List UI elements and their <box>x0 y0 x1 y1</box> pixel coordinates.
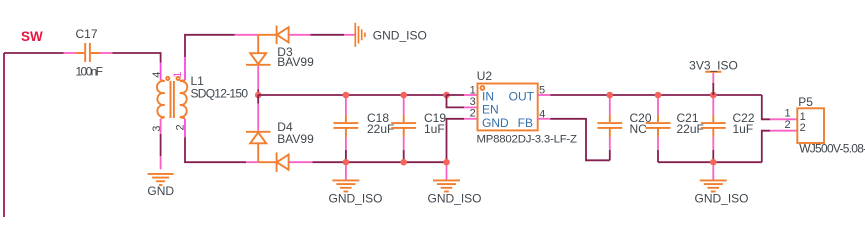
ground GND pin stub <box>160 156 162 169</box>
diode D4 vertical half <box>246 132 271 162</box>
svg-text:1: 1 <box>172 72 184 78</box>
wire pin2 to bottom rail <box>185 137 246 162</box>
wire D3 anode down pink <box>257 66 259 90</box>
svg-text:1: 1 <box>784 107 790 119</box>
svg-text:3: 3 <box>470 96 476 108</box>
P5 pin 1 stub <box>770 118 797 120</box>
wire pin1 riser to top rail <box>185 35 235 57</box>
svg-text:P5: P5 <box>798 95 813 109</box>
svg-text:22uF: 22uF <box>677 122 704 136</box>
diode D3 horizontal half <box>258 26 288 45</box>
svg-text:GND: GND <box>147 184 174 198</box>
transformer L1 pin 2 stub <box>184 119 186 138</box>
capacitor C17 <box>76 43 100 62</box>
connector P5 box <box>797 108 824 143</box>
svg-text:MP8802DJ-3.3-LF-Z: MP8802DJ-3.3-LF-Z <box>477 133 578 145</box>
svg-text:GND_ISO: GND_ISO <box>373 29 427 43</box>
L1 polarity dot primary <box>166 77 169 80</box>
svg-text:100nF: 100nF <box>76 65 104 79</box>
U2 pin 3 stub <box>464 106 478 108</box>
wire mid rail <box>258 94 446 96</box>
wire D3 cathode pink segment <box>289 34 311 36</box>
junction C20 top <box>607 92 614 99</box>
U2 pin1 indicator circle <box>480 86 484 90</box>
svg-text:GND_ISO: GND_ISO <box>695 191 749 205</box>
wire EN feed <box>447 95 465 107</box>
diode D3 vertical half <box>246 35 271 65</box>
junction U2 GND at bottom rail <box>443 159 450 166</box>
transformer L1 pin 1 stub <box>184 57 186 80</box>
op-amp regulator U2 box <box>478 84 538 131</box>
svg-text:3V3_ISO: 3V3_ISO <box>689 58 738 72</box>
wire bottom rail pink segment at D4 <box>246 161 258 163</box>
U2 pin 2 stub <box>464 118 478 120</box>
svg-text:GND: GND <box>482 116 509 130</box>
svg-text:22uF: 22uF <box>367 122 394 136</box>
wire bottom rail <box>313 161 447 163</box>
junction U2 input top <box>443 92 450 99</box>
svg-text:U2: U2 <box>477 69 493 83</box>
U2 pin 4 stub <box>538 118 551 120</box>
transformer L1 pin 4 stub <box>160 63 162 80</box>
wire SW net pink segment left of C17 <box>64 52 77 54</box>
svg-text:SDQ12-150: SDQ12-150 <box>191 86 249 100</box>
svg-text:1uF: 1uF <box>424 122 445 136</box>
wire SW net pink segment right of C17 <box>100 52 113 54</box>
capacitor C20 <box>597 97 622 161</box>
ground GND_ISO under U2 <box>433 166 460 192</box>
L1 secondary winding <box>180 80 187 118</box>
svg-text:BAV99: BAV99 <box>277 55 314 69</box>
L1 polarity dot secondary <box>177 77 180 80</box>
svg-text:NC: NC <box>630 122 648 136</box>
L1 core <box>171 81 174 118</box>
wire OUT rail to P5 pin1 <box>762 95 770 119</box>
svg-text:1: 1 <box>800 111 806 123</box>
junction mid rail at D3/D4 <box>255 92 262 99</box>
transformer L1 pin 3 stub <box>160 119 162 134</box>
svg-text:SW: SW <box>21 29 43 44</box>
svg-text:WJ500V-5.08-: WJ500V-5.08- <box>799 142 865 156</box>
svg-text:2: 2 <box>784 119 790 131</box>
capacitor C18 <box>334 97 359 162</box>
junction C18 top <box>343 92 350 99</box>
svg-text:OUT: OUT <box>509 89 535 103</box>
svg-text:2: 2 <box>800 122 806 134</box>
wire to U2 IN <box>447 94 465 96</box>
capacitor C21 <box>646 97 671 162</box>
svg-text:EN: EN <box>482 103 499 117</box>
svg-text:4: 4 <box>151 72 163 78</box>
wire OUT rail <box>550 94 762 96</box>
svg-text:FB: FB <box>518 116 533 130</box>
svg-text:GND_ISO: GND_ISO <box>329 191 383 205</box>
junction C19 top <box>400 92 407 99</box>
svg-text:1uF: 1uF <box>733 122 754 136</box>
junction C21 top <box>655 92 662 99</box>
junction C19 bottom <box>400 159 407 166</box>
ground GND_ISO top symbol (sideways) <box>355 23 365 47</box>
svg-text:2: 2 <box>470 107 476 119</box>
wire top rail pink segment <box>235 34 259 36</box>
transformer L1 <box>157 77 187 119</box>
svg-text:BAV99: BAV99 <box>277 132 314 146</box>
diode D4 horizontal half <box>258 152 288 172</box>
wire SW net to transformer pin 4 <box>113 53 161 63</box>
L1 primary winding <box>157 80 165 118</box>
power 3V3_ISO symbol <box>705 72 721 95</box>
capacitor C19 <box>391 97 416 162</box>
wire D4 top dark segment <box>257 95 259 104</box>
wire D3 to GND_ISO top <box>311 34 345 36</box>
wire D4 top pink segment <box>257 104 259 131</box>
capacitor C22 <box>701 97 726 162</box>
wire pin3 to GND <box>160 134 162 156</box>
svg-text:GND_ISO: GND_ISO <box>428 191 482 205</box>
wire P5 pin2 to ground rail <box>762 131 770 163</box>
ground GND_ISO top pin stub <box>344 34 355 36</box>
ground GND_ISO under C18 <box>332 166 359 192</box>
wire right ground rail <box>658 161 762 163</box>
wire left vertical sheet line <box>3 53 5 217</box>
wire FB net <box>550 119 610 161</box>
wire SW net horizontal <box>4 52 64 54</box>
svg-text:1: 1 <box>470 84 476 96</box>
U2 pin 5 stub <box>538 94 551 96</box>
ground GND symbol <box>148 174 174 185</box>
ground GND_ISO right <box>700 166 727 192</box>
wire D4 cathode pink segment <box>289 161 313 163</box>
junction C18 bottom <box>343 159 350 166</box>
wire D3 to mid rail <box>257 90 259 96</box>
svg-text:IN: IN <box>482 89 494 103</box>
junction right ground rail <box>710 159 717 166</box>
wire U2 GND down <box>447 119 465 162</box>
junction C22 top <box>710 92 717 99</box>
U2 pin 1 stub <box>464 94 478 96</box>
svg-text:C17: C17 <box>76 27 98 41</box>
P5 pin 2 stub <box>770 130 797 132</box>
